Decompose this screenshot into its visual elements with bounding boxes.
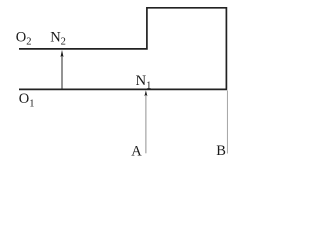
node N1 arrow: vertical arrow from A up to lower line	[144, 90, 147, 153]
svg-text:B: B	[216, 143, 226, 159]
wire: upper boundary line with step (O2 level up to raised block)	[19, 8, 226, 89]
svg-text:A: A	[131, 144, 142, 160]
wire: thin leader line at B up to right edge	[226, 91, 228, 154]
node N2 arrow: vertical arrow from lower line up to upper line	[61, 50, 64, 89]
wire: lower boundary line O1	[19, 88, 227, 90]
